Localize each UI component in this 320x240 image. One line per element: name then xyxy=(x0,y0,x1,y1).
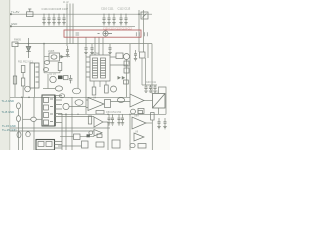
wire bus analog gnd xyxy=(10,96,130,98)
diode D10 top right xyxy=(141,12,148,19)
svg-text:J1 J2: J1 J2 xyxy=(63,2,69,4)
wire vertical right V5 xyxy=(143,10,145,52)
resistor R39b xyxy=(124,68,129,73)
wire R51 row xyxy=(60,136,94,138)
op-amp U4 xyxy=(88,98,104,111)
wire vert x152 xyxy=(151,120,153,150)
svg-text:RM05: RM05 xyxy=(14,38,21,42)
svg-text:C40 C41: C40 C41 xyxy=(146,81,156,84)
inductor L0b xyxy=(43,68,48,72)
wire bus -15 xyxy=(10,127,110,129)
diode D5 xyxy=(122,76,125,80)
box B3 connector xyxy=(112,140,120,148)
pin block M1 d xyxy=(44,120,49,125)
resistor R55 xyxy=(138,111,143,115)
wire U3 right pins xyxy=(110,57,128,65)
junction dot bus xyxy=(21,97,23,99)
page border line xyxy=(9,0,11,150)
module M3 shielded box xyxy=(36,140,55,151)
wire vertical right V4 xyxy=(138,10,140,52)
wire long vertical xyxy=(85,37,87,114)
wire U4 output xyxy=(111,101,131,103)
svg-text:TL+5V: TL+5V xyxy=(11,10,19,14)
highlight box (red) xyxy=(64,30,141,37)
capacitor C41 xyxy=(149,85,152,92)
junction dots rail xyxy=(61,114,130,115)
wire vert x34 xyxy=(33,97,35,150)
diode D4 xyxy=(118,76,121,80)
wire vert x130 xyxy=(129,114,131,150)
op-amp U5 xyxy=(130,94,144,107)
svg-text:U8A: U8A xyxy=(134,114,139,117)
capacitor C111 xyxy=(107,14,110,25)
svg-text:C50 C51 C52: C50 C51 C52 xyxy=(106,111,122,114)
resistor R13 xyxy=(21,78,24,86)
inductor L7 xyxy=(130,143,135,147)
IC U2 regulator xyxy=(49,53,60,61)
wire U2 out xyxy=(44,56,70,58)
capacitor C31 xyxy=(108,44,111,55)
capacitor C104 xyxy=(57,14,60,25)
svg-text:C110 C111: C110 C111 xyxy=(101,7,114,11)
resistor R35 xyxy=(124,80,129,84)
diode D2 xyxy=(61,55,65,59)
junction dot b xyxy=(65,114,67,116)
svg-text:TL-A GND: TL-A GND xyxy=(2,99,14,103)
capacitor C42 xyxy=(153,85,156,92)
svg-text:GND: GND xyxy=(11,22,17,26)
wire U5 out xyxy=(144,100,153,102)
resistor R39a xyxy=(124,61,129,66)
op-amp U9 xyxy=(134,133,144,141)
page margin band xyxy=(0,0,10,150)
wire vertical node V2 xyxy=(69,4,71,44)
wire feedback xyxy=(44,57,60,73)
module M1 right wall xyxy=(54,95,56,126)
wire bottom xyxy=(58,145,82,147)
resistor R34 xyxy=(105,85,109,93)
wire U8 out xyxy=(146,122,152,124)
wire bottom rail xyxy=(58,113,166,115)
capacitor C23 xyxy=(69,75,72,83)
wire U3 left pins xyxy=(86,57,90,77)
wire bead column xyxy=(18,109,20,150)
transistor Q4 xyxy=(124,54,130,60)
capacitor C51 xyxy=(111,114,114,125)
wire M1 pins comb xyxy=(55,96,94,123)
capacitor C32 xyxy=(134,50,137,61)
op-amp U8 xyxy=(132,117,146,129)
svg-text:C105 C107: C105 C107 xyxy=(55,7,69,11)
resistor R52 xyxy=(96,142,104,147)
wire vertical node V3 xyxy=(72,4,74,44)
wire right column drop xyxy=(151,44,153,94)
capacitor C54 xyxy=(157,118,160,129)
diode D3 dark xyxy=(58,76,63,80)
IC U11 tall xyxy=(30,63,39,88)
pin block M3 b xyxy=(46,142,52,147)
wire module right xyxy=(69,106,86,108)
inductor L1 xyxy=(55,86,62,91)
IC U3 xyxy=(90,55,110,81)
wire dgnd link xyxy=(23,118,31,120)
wire X1 bottom xyxy=(158,108,160,114)
capacitor C122 inside highlight xyxy=(144,32,147,36)
wire node x148 xyxy=(147,44,149,58)
capacitor C114 xyxy=(124,14,127,25)
ferrite bead FB2 xyxy=(17,116,21,122)
svg-text:LM05: LM05 xyxy=(48,50,55,53)
junction dot e xyxy=(43,43,45,45)
capacitor C40 xyxy=(144,85,147,92)
resistor R38 xyxy=(97,134,102,138)
junction dots bus1 xyxy=(43,14,126,15)
wire bus mid xyxy=(15,43,152,45)
wire U6 out drop xyxy=(103,122,108,150)
terminal GND xyxy=(10,25,12,27)
svg-text:C120 C121 C122 C123 C12: C120 C121 C122 C123 C12 xyxy=(103,28,132,30)
wire q2 row xyxy=(43,88,55,90)
wire R13 to bus xyxy=(22,86,24,97)
inductor L6 xyxy=(26,132,30,137)
capacitor C55 xyxy=(163,118,166,129)
wire U11 to bus xyxy=(34,88,36,97)
wire cap rail right xyxy=(142,84,157,86)
resistor R12 xyxy=(13,76,16,84)
wire drops from highlight xyxy=(95,37,103,55)
resistor R36 xyxy=(96,111,104,115)
inductor L8 xyxy=(59,94,64,98)
resistor R30 xyxy=(116,53,123,59)
capacitor C50 xyxy=(107,114,110,125)
pin block M3 a xyxy=(38,142,44,147)
capacitor C112 xyxy=(112,14,115,25)
wire vertical node V1 xyxy=(66,4,68,47)
capacitor C121 inside highlight xyxy=(136,32,139,36)
module M1 shielded box xyxy=(42,95,55,126)
resistor R53 xyxy=(151,113,155,121)
capacitor C22 xyxy=(84,44,87,55)
resistor R21 xyxy=(64,76,69,80)
wire bus +5V xyxy=(10,13,152,15)
capacitor C103 xyxy=(52,14,55,25)
svg-text:TL+15 GND: TL+15 GND xyxy=(2,128,16,132)
inductor L6b xyxy=(17,132,21,138)
svg-text:TL-15 GND: TL-15 GND xyxy=(2,124,16,128)
op-amp U6 xyxy=(94,117,103,127)
terminal +5V xyxy=(10,13,12,15)
capacitor C110 xyxy=(102,14,105,25)
op-amp U7 xyxy=(94,130,102,137)
resistor R11 xyxy=(21,66,25,73)
capacitor C52 xyxy=(117,114,120,125)
wire U3 bottom pins xyxy=(94,81,106,87)
junction dot xyxy=(138,13,140,15)
meter M0 inside highlight xyxy=(98,31,113,36)
junction dot a xyxy=(60,97,62,99)
wire drops to cap rail xyxy=(142,58,146,85)
wire from R1 down xyxy=(14,47,16,98)
resistor R37 xyxy=(88,116,91,124)
wire M3 pins xyxy=(55,142,63,149)
transistor Q3 xyxy=(63,103,69,109)
inductor L3 xyxy=(75,100,83,106)
inductor L0a xyxy=(44,61,49,65)
svg-text:C112 C113: C112 C113 xyxy=(118,7,131,11)
wire verticals bottom xyxy=(62,97,72,150)
inductor L4 xyxy=(117,98,124,103)
wire Q4 chain xyxy=(126,60,128,98)
transistor Q1 xyxy=(25,86,31,92)
capacitor C113 xyxy=(119,14,122,25)
ferrite bead FB3 xyxy=(31,117,37,121)
wire q2 stub xyxy=(47,74,49,89)
capacitor C102 xyxy=(47,14,50,25)
junction dot d xyxy=(28,43,30,45)
pin block M1 c xyxy=(44,113,49,118)
capacitor C53 xyxy=(121,114,124,125)
junction dot bus2 xyxy=(28,97,30,99)
wire X1 top loop xyxy=(159,87,167,114)
resistor R20 xyxy=(58,63,62,71)
pad box X1 xyxy=(153,94,166,109)
transistor Q7 xyxy=(89,131,93,135)
diode D1 xyxy=(26,38,31,58)
capacitor C21 xyxy=(66,46,69,57)
transistor Q6 xyxy=(131,109,136,114)
transistor Q2 xyxy=(50,76,56,82)
resistor R31 xyxy=(140,52,146,58)
wire U4 inputs xyxy=(86,100,88,108)
ferrite bead FB1 xyxy=(17,103,21,109)
capacitor C30 xyxy=(90,44,93,55)
wire dgnd link2 xyxy=(36,118,42,120)
svg-text:TL-B GND: TL-B GND xyxy=(2,110,15,114)
wire U2 in drop xyxy=(43,44,45,57)
wire node x78 xyxy=(77,37,79,88)
capacitor C105 xyxy=(62,14,65,25)
box B2 xyxy=(82,141,89,148)
resistor R1 xyxy=(12,42,18,47)
wire bus +15 xyxy=(10,130,94,132)
wire vert x22.5 xyxy=(22,97,24,150)
pin block M1 a xyxy=(44,98,49,103)
pin hooks M1 xyxy=(50,99,53,122)
buffer box U4b xyxy=(105,100,111,108)
diode D6 dark xyxy=(87,134,90,137)
capacitor C120 inside highlight xyxy=(76,33,80,35)
resistor R40 xyxy=(138,109,144,114)
resistor R33 xyxy=(92,87,96,95)
capacitor C101 xyxy=(42,14,45,25)
resistor R51 xyxy=(74,134,81,140)
wire bus GND xyxy=(10,25,135,27)
wire x22 down xyxy=(22,73,24,79)
resistor R54 xyxy=(138,144,146,149)
fuse F1 xyxy=(27,9,34,17)
svg-text:C101 C103: C101 C103 xyxy=(42,7,56,11)
pin block M1 b xyxy=(44,105,49,110)
inductor L2 xyxy=(73,88,81,94)
svg-text:Q2 D3: Q2 D3 xyxy=(49,73,57,76)
transistor Q5 xyxy=(111,86,117,92)
wire left of opamp5 xyxy=(129,44,131,94)
